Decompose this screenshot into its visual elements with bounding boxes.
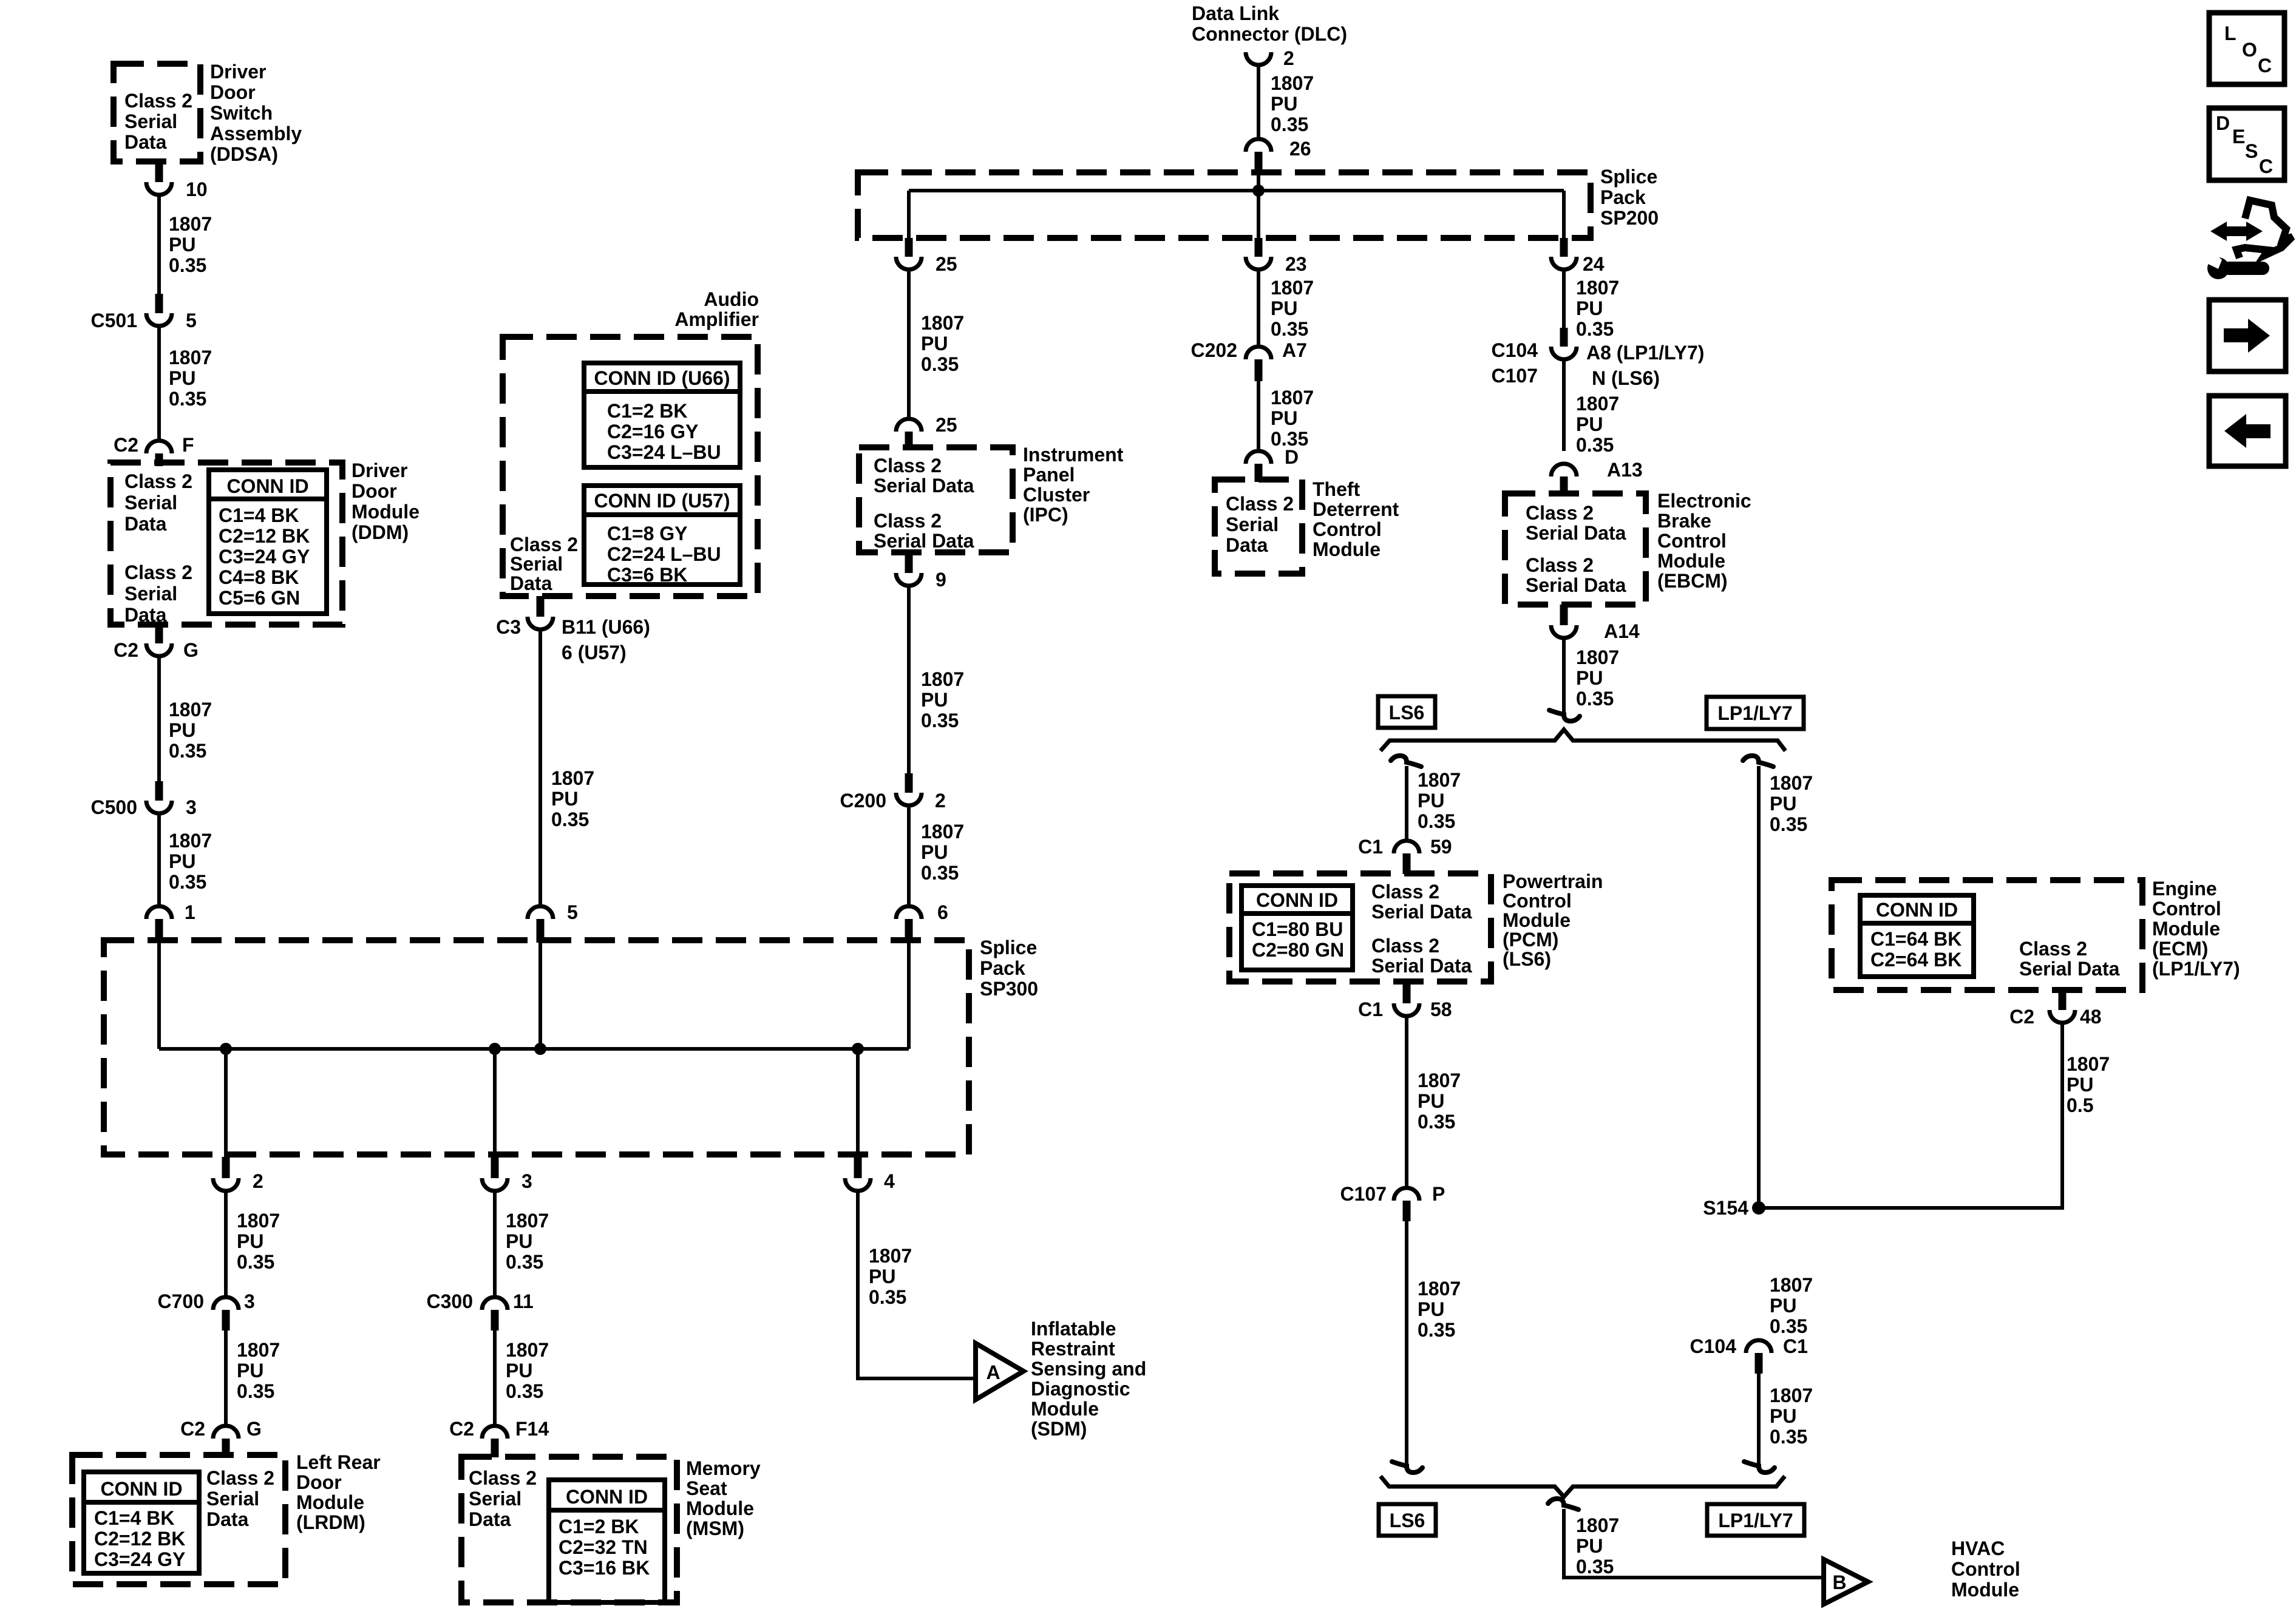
svg-text:Pack: Pack bbox=[980, 957, 1025, 979]
svg-text:F14: F14 bbox=[515, 1418, 549, 1440]
svg-text:0.5: 0.5 bbox=[2067, 1094, 2093, 1116]
wire 1807 PU 0.35 (SP200 pin25 to IPC) bbox=[907, 269, 911, 419]
svg-text:PU: PU bbox=[1271, 407, 1297, 429]
svg-text:26: 26 bbox=[1289, 138, 1311, 160]
svg-text:E: E bbox=[2232, 126, 2245, 147]
connector DDSA pin 10 cup bbox=[146, 182, 172, 195]
svg-text:2: 2 bbox=[1283, 47, 1294, 69]
svg-text:Serial Data: Serial Data bbox=[2019, 958, 2120, 980]
svg-text:PU: PU bbox=[921, 841, 948, 863]
connector C300 terminal bar bbox=[491, 1310, 499, 1331]
svg-text:C500: C500 bbox=[91, 796, 138, 818]
svg-text:(LRDM): (LRDM) bbox=[296, 1511, 365, 1533]
svg-text:Deterrent: Deterrent bbox=[1313, 498, 1399, 520]
svg-text:C1=4 BK: C1=4 BK bbox=[94, 1507, 175, 1529]
wire 1807 PU 0.35 (amp to SP300 pin 5) bbox=[538, 629, 542, 907]
connector C500 terminal bar bbox=[155, 781, 163, 801]
svg-text:Serial Data: Serial Data bbox=[874, 530, 974, 552]
svg-text:1807: 1807 bbox=[869, 1245, 912, 1267]
svg-text:Serial Data: Serial Data bbox=[1371, 955, 1472, 977]
connector LRDM C2 pin G cup bbox=[213, 1426, 239, 1439]
connector SP200 pin 26 terminal bar bbox=[1255, 152, 1263, 175]
svg-text:(EBCM): (EBCM) bbox=[1657, 570, 1728, 592]
connector theft pin D terminal bar bbox=[1255, 464, 1263, 482]
icon wrench bbox=[2207, 257, 2229, 279]
svg-text:3: 3 bbox=[244, 1290, 255, 1312]
connector SP300 pin 3 terminal bar bbox=[491, 1157, 499, 1178]
wire 1807 PU 0.35 (SP200 pin24 to C104) bbox=[1562, 269, 1566, 328]
svg-text:C1: C1 bbox=[1783, 1335, 1808, 1357]
connector MSM C2 pin F14 cup bbox=[482, 1426, 508, 1439]
svg-text:1: 1 bbox=[185, 901, 195, 923]
svg-text:Data Link: Data Link bbox=[1192, 2, 1279, 24]
svg-text:48: 48 bbox=[2080, 1006, 2102, 1028]
svg-text:PU: PU bbox=[1418, 790, 1444, 812]
svg-text:1807: 1807 bbox=[169, 347, 212, 368]
LS6 wire end curl at merge bbox=[1392, 1462, 1422, 1473]
connector EBCM pin A14 terminal bar bbox=[1560, 605, 1568, 625]
svg-text:SP300: SP300 bbox=[980, 978, 1038, 1000]
svg-text:0.35: 0.35 bbox=[169, 254, 206, 276]
svg-text:PU: PU bbox=[506, 1360, 532, 1381]
svg-text:Serial Data: Serial Data bbox=[1371, 901, 1472, 923]
svg-text:Serial: Serial bbox=[510, 553, 563, 575]
connector SP300 pin 2 terminal bar bbox=[222, 1157, 230, 1178]
connector theft pin D cup bbox=[1246, 451, 1271, 464]
svg-text:1807: 1807 bbox=[237, 1210, 280, 1232]
svg-text:Serial: Serial bbox=[1226, 514, 1279, 535]
svg-text:S154: S154 bbox=[1703, 1197, 1748, 1219]
svg-text:Module: Module bbox=[686, 1497, 754, 1519]
svg-text:C2=32 TN: C2=32 TN bbox=[559, 1536, 648, 1558]
connector DLC pin 2 cup bbox=[1246, 52, 1271, 65]
wire SP300 pin4 drop bbox=[856, 1049, 860, 1158]
svg-text:C2=64 BK: C2=64 BK bbox=[1870, 949, 1961, 971]
svg-text:PU: PU bbox=[1271, 93, 1297, 115]
connector SP300 pin 5 terminal bar bbox=[537, 919, 545, 943]
wire SP200 pin23 drop bbox=[1257, 175, 1260, 238]
svg-text:Data: Data bbox=[510, 572, 552, 594]
svg-text:1807: 1807 bbox=[169, 699, 212, 720]
svg-text:6 (U57): 6 (U57) bbox=[562, 642, 627, 663]
svg-text:Module: Module bbox=[1503, 909, 1571, 931]
module ECM dashed box (Engine Control Module) bbox=[1832, 880, 2142, 990]
connector SP200 pin 26 cup bbox=[1246, 139, 1271, 152]
svg-text:PU: PU bbox=[921, 333, 948, 354]
svg-text:Module: Module bbox=[1031, 1398, 1099, 1420]
svg-text:2: 2 bbox=[253, 1170, 263, 1192]
svg-text:C1=2 BK: C1=2 BK bbox=[607, 400, 688, 422]
svg-text:Control: Control bbox=[1657, 530, 1727, 552]
svg-text:1807: 1807 bbox=[1576, 1514, 1619, 1536]
connector C501 terminal bar bbox=[155, 294, 163, 313]
svg-text:Serial Data: Serial Data bbox=[1526, 574, 1626, 596]
wire 1807 PU 0.35 (split to PCM) bbox=[1405, 766, 1408, 841]
svg-text:PU: PU bbox=[921, 689, 948, 711]
svg-text:Module: Module bbox=[352, 501, 419, 523]
svg-text:1807: 1807 bbox=[1770, 772, 1813, 794]
svg-text:Splice: Splice bbox=[1600, 166, 1657, 188]
svg-text:0.35: 0.35 bbox=[869, 1286, 906, 1308]
wire 1807 PU 0.35 (C300 to MSM) bbox=[493, 1331, 497, 1426]
svg-text:PU: PU bbox=[169, 234, 195, 256]
connector EBCM pin A14 cup bbox=[1551, 625, 1577, 638]
label box LS6 (lower) bbox=[1379, 1504, 1436, 1536]
svg-text:C1=2 BK: C1=2 BK bbox=[559, 1516, 639, 1537]
svg-text:C2=12 BK: C2=12 BK bbox=[94, 1528, 185, 1550]
svg-text:9: 9 bbox=[936, 569, 946, 591]
svg-text:Control: Control bbox=[1313, 518, 1382, 540]
connector DDM C2 pin F terminal bar bbox=[155, 453, 163, 466]
svg-text:C3=16 BK: C3=16 BK bbox=[559, 1557, 650, 1579]
svg-text:(IPC): (IPC) bbox=[1023, 504, 1068, 526]
amp CONN ID (U57) table bbox=[584, 486, 740, 585]
svg-text:0.35: 0.35 bbox=[1770, 1315, 1807, 1337]
module PCM dashed box (Powertrain Control Module) bbox=[1229, 873, 1491, 981]
module DDM dashed box (Driver Door Module) bbox=[110, 463, 342, 625]
svg-text:Class 2: Class 2 bbox=[2019, 938, 2087, 960]
module IPC dashed box (Instrument Panel Cluster) bbox=[859, 447, 1013, 552]
wire 1807 PU 0.35 (C107 to merge) bbox=[1405, 1221, 1408, 1464]
svg-text:LP1/LY7: LP1/LY7 bbox=[1718, 1510, 1793, 1531]
wire end curl at split bbox=[1549, 710, 1580, 721]
svg-text:PU: PU bbox=[1770, 793, 1796, 815]
svg-text:PU: PU bbox=[169, 719, 195, 741]
svg-text:(ECM): (ECM) bbox=[2152, 938, 2208, 960]
svg-text:1807: 1807 bbox=[506, 1339, 549, 1361]
connector C501 cup bbox=[146, 313, 172, 326]
connector C104 pin C1 terminal bar bbox=[1755, 1353, 1763, 1374]
svg-text:Data: Data bbox=[469, 1508, 511, 1530]
module DDSA dashed box (Driver Door Switch Assembly) bbox=[114, 64, 200, 161]
connector PCM C1 pin 58 cup bbox=[1394, 1003, 1419, 1016]
svg-text:Left Rear: Left Rear bbox=[296, 1451, 381, 1473]
module EBCM dashed box (Electronic Brake Control Module) bbox=[1505, 493, 1646, 605]
connector C107 pin P cup bbox=[1394, 1188, 1419, 1201]
connector IPC pin 25 cup bbox=[896, 419, 922, 432]
connector C500 cup bbox=[146, 801, 172, 813]
svg-text:Theft: Theft bbox=[1313, 478, 1360, 500]
splice S154 junction dot bbox=[1752, 1201, 1765, 1215]
wire 1807 PU 0.5 (ECM to S154) bbox=[1759, 1023, 2062, 1208]
svg-text:5: 5 bbox=[186, 310, 197, 331]
connector amp C3 cup bbox=[528, 617, 553, 629]
connector C202 terminal bar bbox=[1255, 359, 1263, 381]
svg-text:C2=12 BK: C2=12 BK bbox=[219, 525, 310, 547]
svg-text:C3=24 GY: C3=24 GY bbox=[94, 1548, 185, 1570]
DDM CONN ID table bbox=[209, 470, 327, 614]
svg-text:59: 59 bbox=[1430, 836, 1452, 858]
connector ECM C2 pin 48 cup bbox=[2050, 1010, 2075, 1023]
PCM CONN ID table bbox=[1241, 886, 1353, 970]
svg-text:Class 2: Class 2 bbox=[1371, 881, 1439, 903]
svg-text:C107: C107 bbox=[1492, 365, 1538, 387]
svg-text:Engine: Engine bbox=[2152, 878, 2217, 900]
svg-text:1807: 1807 bbox=[169, 213, 212, 235]
svg-text:SP200: SP200 bbox=[1600, 207, 1659, 229]
svg-text:C1: C1 bbox=[1358, 836, 1383, 858]
svg-text:PU: PU bbox=[1770, 1295, 1796, 1317]
svg-text:0.35: 0.35 bbox=[1418, 810, 1455, 832]
svg-text:0.35: 0.35 bbox=[551, 808, 589, 830]
svg-text:Class 2: Class 2 bbox=[1526, 502, 1594, 524]
svg-text:C700: C700 bbox=[158, 1290, 205, 1312]
svg-text:Class 2: Class 2 bbox=[124, 90, 192, 112]
svg-text:C1=64 BK: C1=64 BK bbox=[1870, 928, 1961, 950]
svg-text:Electronic: Electronic bbox=[1657, 490, 1751, 512]
connector DDM C2 pin F cup bbox=[146, 441, 172, 453]
svg-text:C: C bbox=[2259, 155, 2273, 177]
connector ECM C2 pin 48 terminal bar bbox=[2059, 990, 2067, 1010]
connector IPC pin 9 cup bbox=[896, 573, 922, 586]
svg-text:1807: 1807 bbox=[1770, 1385, 1813, 1406]
svg-text:0.35: 0.35 bbox=[169, 871, 206, 893]
svg-text:3: 3 bbox=[521, 1170, 532, 1192]
connector PCM C1 pin 59 cup bbox=[1394, 841, 1419, 853]
wire 1807 PU 0.35 (SP300 pin3 to C300) bbox=[493, 1191, 497, 1297]
svg-text:C300: C300 bbox=[427, 1290, 474, 1312]
svg-text:1807: 1807 bbox=[237, 1339, 280, 1361]
svg-text:Assembly: Assembly bbox=[210, 123, 302, 144]
svg-text:Audio: Audio bbox=[704, 288, 759, 310]
svg-text:C: C bbox=[2258, 55, 2272, 76]
svg-text:CONN ID (U57): CONN ID (U57) bbox=[594, 490, 730, 512]
svg-text:Serial: Serial bbox=[206, 1488, 259, 1510]
svg-text:Serial: Serial bbox=[469, 1488, 521, 1510]
wire 1807 PU 0.35 (C700 to LRDM) bbox=[224, 1331, 228, 1426]
connector SP200 pin 23 terminal bar bbox=[1255, 238, 1263, 257]
svg-text:Pack: Pack bbox=[1600, 186, 1646, 208]
splice pack SP200 dashed box bbox=[858, 172, 1591, 238]
wire 1807 PU 0.35 (DLC to SP200) bbox=[1257, 65, 1260, 139]
LS6 branch start curl bbox=[1391, 756, 1421, 767]
connector DDM C2 pin G terminal bar bbox=[155, 625, 163, 643]
connector PCM C1 pin 58 terminal bar bbox=[1403, 981, 1411, 1003]
svg-text:0.35: 0.35 bbox=[1418, 1111, 1455, 1133]
wire 1807 PU 0.35 (SP300 pin2 to C700) bbox=[224, 1191, 228, 1297]
svg-text:1807: 1807 bbox=[921, 312, 964, 334]
SP300 junction dot pin3 branch bbox=[489, 1043, 501, 1055]
svg-text:Control: Control bbox=[2152, 898, 2221, 920]
wire 1807 PU 0.35 (C501 to DDM) bbox=[157, 326, 161, 442]
svg-text:(LS6): (LS6) bbox=[1503, 948, 1551, 970]
svg-text:C3=6 BK: C3=6 BK bbox=[607, 564, 688, 586]
svg-text:C2=80 GN: C2=80 GN bbox=[1252, 939, 1344, 961]
svg-text:Panel: Panel bbox=[1023, 464, 1075, 486]
SP300 junction dot pin5 branch bbox=[534, 1043, 546, 1055]
icon vehicle double arrow bbox=[2210, 222, 2263, 241]
svg-text:PU: PU bbox=[1770, 1405, 1796, 1427]
label box LP1/LY7 bbox=[1707, 697, 1804, 729]
icon DESC box bbox=[2209, 108, 2284, 180]
svg-text:CONN ID: CONN ID bbox=[1876, 899, 1958, 921]
svg-text:D: D bbox=[1285, 446, 1299, 468]
connector SP300 pin 1 terminal bar bbox=[155, 919, 163, 943]
svg-text:1807: 1807 bbox=[1418, 769, 1461, 791]
svg-text:Instrument: Instrument bbox=[1023, 444, 1124, 466]
connector SP300 pin 6 cup bbox=[896, 906, 922, 919]
svg-text:Powertrain: Powertrain bbox=[1503, 870, 1603, 892]
svg-text:0.35: 0.35 bbox=[1576, 688, 1614, 710]
svg-text:6: 6 bbox=[937, 901, 948, 923]
svg-text:Class 2: Class 2 bbox=[510, 534, 578, 555]
svg-text:Control: Control bbox=[1951, 1558, 2020, 1580]
svg-text:0.35: 0.35 bbox=[1576, 434, 1614, 456]
svg-text:0.35: 0.35 bbox=[921, 353, 959, 375]
svg-text:C104: C104 bbox=[1492, 339, 1538, 361]
SP200 internal bus wire bbox=[909, 189, 1564, 192]
amp CONN ID (U66) table bbox=[584, 363, 740, 467]
svg-text:C2: C2 bbox=[114, 434, 138, 456]
connector C104/C107 cup bbox=[1551, 347, 1577, 359]
connector C107 pin P terminal bar bbox=[1403, 1201, 1411, 1221]
off-page triangle A to SDM bbox=[976, 1343, 1024, 1400]
svg-text:HVAC: HVAC bbox=[1951, 1537, 2005, 1559]
svg-text:Class 2: Class 2 bbox=[124, 561, 192, 583]
LRDM CONN ID table bbox=[84, 1472, 199, 1573]
svg-text:(MSM): (MSM) bbox=[686, 1517, 744, 1539]
svg-text:4: 4 bbox=[884, 1170, 895, 1192]
icon forward arrow box bbox=[2209, 300, 2286, 371]
svg-text:C1: C1 bbox=[1358, 998, 1383, 1020]
connector SP200 pin 24 cup bbox=[1551, 257, 1577, 269]
wire 1807 PU 0.35 (SP200 pin23 to C202) bbox=[1257, 269, 1260, 347]
svg-text:Connector (DLC): Connector (DLC) bbox=[1192, 23, 1347, 45]
svg-text:5: 5 bbox=[567, 901, 578, 923]
splice pack SP300 dashed box bbox=[104, 940, 969, 1154]
connector IPC pin 9 terminal bar bbox=[905, 552, 913, 573]
svg-text:Seat: Seat bbox=[686, 1477, 727, 1499]
connector C202 cup bbox=[1246, 347, 1271, 359]
connector SP300 pin 6 terminal bar bbox=[905, 919, 913, 943]
svg-text:C1=80 BU: C1=80 BU bbox=[1252, 918, 1343, 940]
svg-text:Amplifier: Amplifier bbox=[674, 308, 759, 330]
svg-text:25: 25 bbox=[936, 414, 957, 436]
svg-text:58: 58 bbox=[1430, 998, 1452, 1020]
svg-text:C107: C107 bbox=[1340, 1183, 1387, 1205]
wire SP300 pin2 drop bbox=[224, 1049, 228, 1158]
svg-text:3: 3 bbox=[186, 796, 197, 818]
svg-text:Class 2: Class 2 bbox=[469, 1467, 537, 1489]
icon vehicle outline bbox=[2237, 200, 2292, 258]
svg-text:C3: C3 bbox=[496, 616, 521, 638]
svg-text:0.35: 0.35 bbox=[1271, 318, 1308, 340]
connector SP200 pin 24 terminal bar bbox=[1560, 238, 1568, 257]
svg-text:0.35: 0.35 bbox=[237, 1380, 274, 1402]
svg-text:(SDM): (SDM) bbox=[1031, 1418, 1087, 1440]
svg-text:C2: C2 bbox=[2009, 1006, 2034, 1028]
SP300 junction dot pin2 branch bbox=[220, 1043, 232, 1055]
svg-text:S: S bbox=[2245, 140, 2258, 162]
svg-text:1807: 1807 bbox=[1418, 1070, 1461, 1091]
svg-text:1807: 1807 bbox=[506, 1210, 549, 1232]
svg-text:A13: A13 bbox=[1607, 459, 1643, 481]
svg-text:Switch: Switch bbox=[210, 102, 273, 124]
svg-text:(DDSA): (DDSA) bbox=[210, 143, 278, 165]
svg-text:C3=24 L–BU: C3=24 L–BU bbox=[607, 441, 721, 463]
MSM CONN ID table bbox=[549, 1480, 665, 1602]
svg-text:PU: PU bbox=[869, 1266, 895, 1287]
svg-text:A: A bbox=[986, 1361, 1000, 1383]
wire SP300 pin3 drop bbox=[493, 1049, 497, 1158]
svg-text:Serial: Serial bbox=[124, 110, 177, 132]
svg-text:C4=8 BK: C4=8 BK bbox=[219, 566, 299, 588]
svg-text:0.35: 0.35 bbox=[921, 710, 959, 731]
svg-text:1807: 1807 bbox=[1576, 393, 1619, 415]
wire SP300 pin6 drop bbox=[907, 943, 911, 1049]
svg-text:Serial Data: Serial Data bbox=[874, 475, 974, 497]
svg-text:Module: Module bbox=[1951, 1579, 2019, 1601]
svg-text:0.35: 0.35 bbox=[1271, 114, 1308, 135]
connector IPC pin 25 terminal bar bbox=[905, 432, 913, 450]
svg-text:CONN ID: CONN ID bbox=[566, 1486, 648, 1508]
svg-text:25: 25 bbox=[936, 253, 957, 275]
LP1/LY7 branch start curl bbox=[1743, 756, 1773, 767]
connector SP200 pin 25 terminal bar bbox=[905, 238, 913, 257]
svg-text:(PCM): (PCM) bbox=[1503, 929, 1558, 951]
SP200 junction dot bbox=[1252, 185, 1265, 197]
wire 1807 PU 0.35 (IPC to C200) bbox=[907, 586, 911, 773]
svg-text:1807: 1807 bbox=[2067, 1053, 2110, 1075]
icon LOC box bbox=[2209, 13, 2284, 84]
svg-text:C501: C501 bbox=[91, 310, 138, 331]
svg-text:Data: Data bbox=[206, 1508, 249, 1530]
svg-text:Serial: Serial bbox=[124, 583, 177, 605]
connector SP300 pin 2 cup bbox=[213, 1178, 239, 1191]
svg-text:Driver: Driver bbox=[352, 459, 408, 481]
svg-text:Data: Data bbox=[124, 513, 167, 535]
module LRDM dashed box (Left Rear Door Module) bbox=[72, 1455, 285, 1584]
connector DDSA pin 10 terminal bar bbox=[155, 161, 163, 182]
svg-text:PU: PU bbox=[237, 1360, 263, 1381]
svg-text:1807: 1807 bbox=[169, 830, 212, 852]
svg-text:L: L bbox=[2224, 22, 2237, 44]
svg-text:Sensing and: Sensing and bbox=[1031, 1358, 1146, 1380]
svg-text:1807: 1807 bbox=[551, 767, 594, 789]
svg-text:G: G bbox=[183, 639, 199, 661]
svg-text:C2: C2 bbox=[449, 1418, 474, 1440]
svg-text:Brake: Brake bbox=[1657, 510, 1711, 532]
svg-text:B11 (U66): B11 (U66) bbox=[562, 616, 650, 638]
connector C104 pin C1 cup bbox=[1746, 1340, 1771, 1353]
connector SP300 pin 4 terminal bar bbox=[854, 1157, 862, 1178]
ECM CONN ID table bbox=[1860, 895, 1974, 977]
wire 1807 PU 0.35 (C104 to EBCM) bbox=[1562, 359, 1566, 451]
svg-text:PU: PU bbox=[1418, 1298, 1444, 1320]
connector SP300 pin 1 cup bbox=[146, 906, 172, 919]
svg-text:0.35: 0.35 bbox=[1576, 318, 1614, 340]
svg-text:PU: PU bbox=[1271, 297, 1297, 319]
connector EBCM pin A13 cup bbox=[1551, 464, 1577, 476]
engine option split brace bbox=[1381, 730, 1785, 751]
svg-text:N (LS6): N (LS6) bbox=[1592, 367, 1660, 389]
svg-text:B: B bbox=[1832, 1571, 1846, 1593]
wire SP300 pin5 drop bbox=[538, 943, 542, 1049]
wire 1807 PU 0.35 (DDSA to C501) bbox=[157, 195, 161, 294]
svg-text:Diagnostic: Diagnostic bbox=[1031, 1378, 1130, 1400]
svg-text:C2=16 GY: C2=16 GY bbox=[607, 421, 698, 442]
connector C700 cup bbox=[213, 1297, 239, 1310]
svg-text:Class 2: Class 2 bbox=[206, 1467, 274, 1489]
wire 1807 PU 0.35 (SP300 pin4 to SDM) bbox=[858, 1191, 976, 1378]
svg-text:Class 2: Class 2 bbox=[1526, 554, 1594, 576]
svg-text:0.35: 0.35 bbox=[237, 1251, 274, 1273]
engine option merge brace bbox=[1381, 1476, 1785, 1497]
merged wire start curl bbox=[1548, 1499, 1578, 1510]
svg-text:PU: PU bbox=[1576, 1535, 1603, 1557]
svg-text:Class 2: Class 2 bbox=[1371, 935, 1439, 957]
svg-text:PU: PU bbox=[1418, 1090, 1444, 1112]
